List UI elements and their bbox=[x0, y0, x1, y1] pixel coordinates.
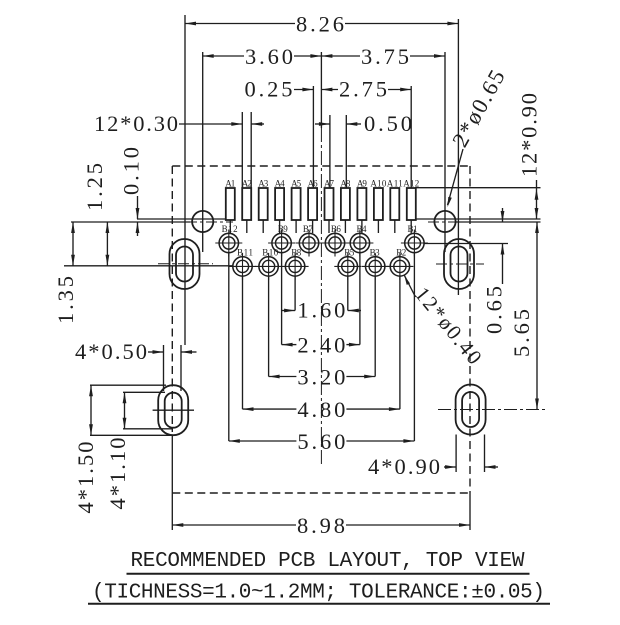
mounting slot bottom-left bbox=[158, 385, 188, 435]
extension line B12 vertical bbox=[228, 253, 230, 441]
pad A11 bbox=[387, 179, 403, 234]
reference line slot left bottom bbox=[90, 434, 172, 436]
svg-text:B2: B2 bbox=[396, 248, 406, 258]
svg-text:4*0.50: 4*0.50 bbox=[75, 339, 147, 364]
svg-text:8.98: 8.98 bbox=[297, 513, 345, 538]
extension line slot left inner left edge bbox=[163, 345, 165, 391]
svg-text:B5: B5 bbox=[344, 248, 355, 258]
hole B5 bbox=[334, 248, 361, 280]
title underline bbox=[127, 573, 530, 575]
pad A9 bbox=[357, 179, 368, 234]
svg-text:3.60: 3.60 bbox=[245, 44, 293, 69]
svg-text:2.40: 2.40 bbox=[297, 333, 345, 358]
pad A2 bbox=[242, 179, 252, 234]
extension line right oval center vertical bbox=[457, 19, 459, 295]
label 2*dia0.65 with leader bbox=[447, 66, 510, 207]
extension line pad A2 right edge bbox=[250, 112, 252, 188]
svg-text:A1: A1 bbox=[225, 179, 235, 189]
svg-text:A10: A10 bbox=[370, 179, 387, 189]
dimension 5.65 bbox=[509, 222, 539, 410]
svg-text:0.10: 0.10 bbox=[119, 147, 144, 195]
label 12*dia0.40 with leader bbox=[404, 275, 487, 369]
dimension 4*1.50 slot outer height bbox=[73, 385, 98, 513]
svg-text:B8: B8 bbox=[291, 248, 302, 258]
crosshair slot bottom-left horizontal bbox=[153, 409, 194, 411]
extension line slot left inner right edge bbox=[180, 345, 182, 391]
mounting slot left-middle bbox=[170, 239, 200, 289]
extension line pad A6 vertical bbox=[312, 86, 314, 188]
extension line slot right outer right edge bbox=[484, 435, 486, 473]
dimension 4.80 bbox=[243, 397, 400, 422]
dimension 0.65 bbox=[482, 208, 507, 334]
pad A1 bbox=[225, 179, 235, 234]
extension line B11 vertical bbox=[242, 277, 244, 410]
dimension 3.20 bbox=[269, 365, 376, 390]
svg-text:B4: B4 bbox=[357, 224, 368, 234]
hole B8 bbox=[282, 248, 309, 280]
hole B11 bbox=[229, 248, 256, 280]
pad A5 bbox=[291, 179, 302, 234]
extension line pad A8 vertical bbox=[345, 115, 347, 188]
tolerance text bbox=[92, 582, 545, 605]
svg-text:A2: A2 bbox=[242, 179, 252, 189]
svg-text:B6: B6 bbox=[331, 224, 342, 234]
body outline dashed left edge bbox=[171, 166, 173, 432]
svg-text:4*1.50: 4*1.50 bbox=[73, 442, 98, 514]
svg-text:2.75: 2.75 bbox=[339, 77, 387, 102]
oval centerline left-middle bbox=[158, 263, 213, 265]
reference line slot left top bbox=[90, 384, 166, 386]
dimension 8.98 overall length bbox=[172, 513, 470, 538]
svg-text:0.25: 0.25 bbox=[245, 77, 293, 102]
svg-text:B1: B1 bbox=[408, 224, 418, 234]
svg-text:5.60: 5.60 bbox=[297, 429, 345, 454]
hole B2 bbox=[386, 248, 413, 280]
tolerance underline bbox=[88, 603, 550, 605]
extension line pad A7 vertical bbox=[329, 115, 331, 188]
extension line 8.98 right bbox=[469, 493, 471, 530]
svg-text:B12: B12 bbox=[222, 224, 238, 234]
pad A10 bbox=[370, 179, 387, 234]
svg-text:0.50: 0.50 bbox=[364, 111, 412, 136]
body outline dashed right edge bbox=[469, 166, 471, 493]
svg-text:B10: B10 bbox=[262, 248, 279, 258]
pad A4 bbox=[275, 179, 286, 234]
extension line B10 vertical bbox=[268, 277, 270, 377]
extension line left hole vertical bbox=[202, 52, 204, 252]
hole centerline horizontal right bbox=[428, 221, 458, 223]
hole centerline horizontal left bbox=[186, 221, 233, 223]
reference line pad bottom right bbox=[415, 218, 541, 220]
reference line slot left inner top bbox=[123, 391, 165, 393]
svg-text:A3: A3 bbox=[258, 179, 269, 189]
pad A12 bbox=[403, 179, 419, 234]
oval centerline right-middle bbox=[436, 263, 484, 265]
reference line pad top right bbox=[415, 187, 541, 189]
body outline dashed bottom edge bbox=[172, 492, 470, 494]
extension line slot right outer left edge bbox=[455, 435, 457, 473]
svg-text:4*1.10: 4*1.10 bbox=[105, 438, 130, 510]
dimension 3.75 right bbox=[321, 44, 445, 69]
svg-text:(TICHNESS=1.0~1.2MM; TOLERANCE: (TICHNESS=1.0~1.2MM; TOLERANCE:±0.05) bbox=[92, 582, 545, 605]
dimension 4*1.10 slot inner height bbox=[105, 392, 130, 509]
extension line B9 vertical bbox=[281, 253, 283, 345]
reference line hole row left bbox=[71, 221, 190, 223]
reference line pad bottom left bbox=[137, 218, 226, 220]
dimension 2.75 bbox=[321, 77, 411, 102]
hole B1 bbox=[401, 224, 428, 257]
hole 0.65 right bbox=[434, 211, 455, 232]
hole B9 bbox=[268, 224, 295, 257]
dimension 1.25 bbox=[82, 163, 109, 266]
dimension 1.60 bbox=[281, 298, 361, 323]
hole B7 bbox=[296, 224, 323, 257]
dimension 0.10 offset bbox=[119, 147, 144, 236]
svg-text:1.25: 1.25 bbox=[82, 163, 107, 211]
extension line left oval center vertical bbox=[184, 15, 186, 345]
vertical centerline bbox=[320, 128, 322, 465]
svg-text:B3: B3 bbox=[370, 248, 381, 258]
dimension 4*0.50 slot width bbox=[75, 339, 197, 364]
dimension 8.26 overall width bbox=[185, 12, 458, 37]
pad A6 bbox=[308, 179, 319, 234]
svg-text:B7: B7 bbox=[303, 224, 314, 234]
svg-text:A9: A9 bbox=[357, 179, 368, 189]
svg-text:5.65: 5.65 bbox=[509, 309, 534, 357]
reference line upper B row right bbox=[424, 243, 508, 245]
dimension 4*0.90 slot outer width bbox=[368, 454, 498, 479]
mounting slot right-middle bbox=[444, 239, 474, 289]
dimension 0.50 pad pitch bbox=[315, 111, 412, 136]
extension line pad A12 vertical bbox=[410, 86, 412, 188]
title text bbox=[131, 550, 525, 573]
extension line right hole vertical bbox=[444, 52, 446, 252]
dimension 2.40 bbox=[282, 333, 360, 358]
dimension 0.25 bbox=[245, 77, 314, 102]
hole B4 bbox=[346, 224, 373, 257]
svg-text:3.75: 3.75 bbox=[361, 44, 409, 69]
extension line center vertical bbox=[320, 52, 322, 128]
svg-text:B11: B11 bbox=[237, 248, 253, 258]
svg-text:A4: A4 bbox=[275, 179, 286, 189]
svg-text:8.26: 8.26 bbox=[296, 12, 344, 37]
body outline dashed top edge bbox=[172, 165, 470, 167]
hole B12 bbox=[215, 224, 242, 257]
hole B10 bbox=[255, 248, 282, 280]
svg-text:1.60: 1.60 bbox=[297, 298, 345, 323]
extension line B2 vertical bbox=[399, 277, 401, 410]
extension line B3 vertical bbox=[374, 277, 376, 377]
extension line B5 vertical bbox=[347, 277, 349, 311]
svg-text:3.20: 3.20 bbox=[297, 365, 345, 390]
hole B6 bbox=[322, 224, 349, 257]
dimension 1.35 bbox=[53, 222, 78, 324]
extension line 8.98 left bbox=[171, 435, 173, 530]
extension line B8 vertical bbox=[294, 277, 296, 311]
svg-text:B9: B9 bbox=[278, 224, 289, 234]
hole B3 bbox=[362, 248, 389, 280]
extension line B1 vertical bbox=[413, 253, 415, 441]
reference line hole row right bbox=[455, 221, 541, 223]
pad A7 bbox=[324, 179, 335, 234]
mounting slot bottom-right bbox=[456, 385, 486, 435]
reference line slot left inner bottom bbox=[123, 428, 172, 430]
pad A8 bbox=[340, 179, 351, 234]
hole 0.65 left bbox=[192, 211, 213, 232]
svg-text:4.80: 4.80 bbox=[297, 397, 345, 422]
svg-text:RECOMMENDED PCB LAYOUT, TOP VI: RECOMMENDED PCB LAYOUT, TOP VIEW bbox=[131, 550, 525, 573]
svg-text:A5: A5 bbox=[291, 179, 302, 189]
reference line lower B row left bbox=[64, 265, 233, 267]
dimension 5.60 bbox=[229, 429, 415, 454]
dimension 12*0.30 pad width bbox=[94, 111, 264, 136]
oval centerline bottom-right bbox=[438, 409, 545, 411]
pad A3 bbox=[258, 179, 269, 234]
extension line B4 vertical bbox=[359, 253, 361, 345]
dimension 12*0.90 pad length bbox=[517, 93, 542, 219]
extension line pad A2 left edge bbox=[241, 112, 243, 188]
svg-text:1.35: 1.35 bbox=[53, 276, 78, 324]
dimension 3.60 left bbox=[203, 44, 322, 69]
svg-text:0.65: 0.65 bbox=[482, 286, 507, 334]
svg-text:A11: A11 bbox=[387, 179, 403, 189]
svg-text:4*0.90: 4*0.90 bbox=[368, 454, 440, 479]
